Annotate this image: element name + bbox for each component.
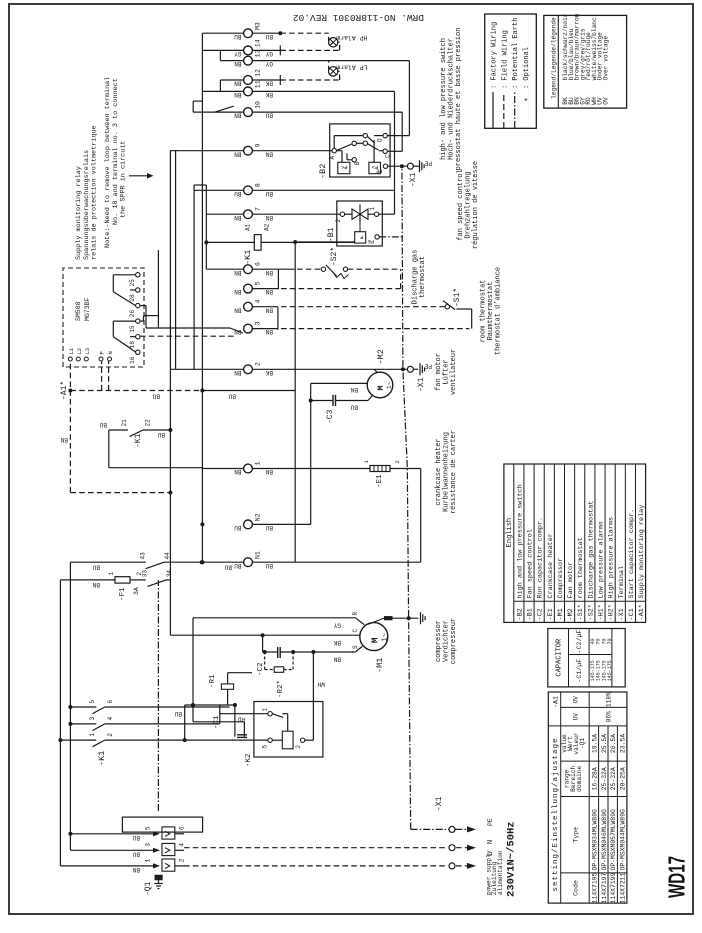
- svg-text:BN: BN: [92, 581, 100, 588]
- breaker Q1 pole 5-6: [70, 826, 185, 841]
- svg-text:thermostat: thermostat: [419, 256, 427, 298]
- start resistor R1: [209, 673, 252, 705]
- svg-text:setting/Einstellung/ajustage: setting/Einstellung/ajustage: [552, 737, 560, 891]
- contactor K1 pole 5-6: [70, 700, 114, 714]
- svg-text:BN: BN: [234, 214, 242, 221]
- K1 pole 1-2 lower wire to K2: [105, 738, 268, 742]
- svg-text:9: 9: [255, 144, 262, 148]
- svg-text:S: S: [352, 645, 359, 649]
- K1 pole 3-4 lower wire: [105, 723, 220, 725]
- svg-text:-C3: -C3: [326, 409, 335, 424]
- svg-text:Compressor: Compressor: [557, 558, 565, 599]
- svg-text:34: 34: [166, 570, 173, 578]
- B2 link P-less: [336, 151, 342, 163]
- svg-text:English: English: [506, 518, 514, 547]
- start capacitor C1 wiring: [193, 705, 244, 737]
- svg-text:BN: BN: [132, 866, 140, 873]
- optional resistor R2: [265, 652, 293, 698]
- discharge gas thermostat S2: [321, 247, 400, 279]
- svg-text:-C1/µF: -C1/µF: [576, 659, 583, 683]
- svg-text:-S1*: -S1*: [577, 604, 585, 620]
- note text about SPPR loop: [104, 77, 127, 248]
- svg-text:5: 5: [89, 700, 96, 704]
- svg-text:C: C: [352, 629, 359, 633]
- fan speed control B1 box: [327, 201, 382, 246]
- wire terminal 8 lower: [252, 189, 394, 191]
- relay K2 terminal 5: [262, 738, 283, 749]
- lamp link M3 to HP: [328, 33, 330, 42]
- svg-text:-C1: -C1: [213, 715, 221, 729]
- fan motor X1 PE terminal: [407, 363, 432, 393]
- svg-text:BU: BU: [152, 392, 160, 399]
- coil bus segment: [194, 185, 208, 269]
- supply monitoring relay caption: [75, 125, 99, 260]
- svg-text:8: 8: [255, 183, 262, 187]
- svg-text:230V1N~/50Hz: 230V1N~/50Hz: [506, 821, 518, 897]
- power supply text block: [486, 821, 518, 897]
- B2 contact b: [363, 141, 379, 150]
- svg-text:1: 1: [145, 858, 152, 862]
- svg-text:-A1*: -A1*: [638, 604, 646, 620]
- svg-text:BN: BN: [265, 468, 273, 475]
- terminal X1-12: [234, 69, 273, 87]
- svg-text:BN: BN: [350, 386, 358, 393]
- svg-text:2: 2: [255, 362, 262, 366]
- svg-text:-X1: -X1: [409, 172, 418, 187]
- run capacitor C2: [257, 647, 295, 676]
- terminal X1-6: [234, 262, 273, 276]
- svg-text:OV: OV: [573, 696, 580, 704]
- svg-text:WD17: WD17: [664, 856, 690, 898]
- B1 output wire to terminal 11: [394, 91, 396, 214]
- dashed wire P: [101, 361, 103, 391]
- contactor K1 coil: [206, 223, 354, 265]
- B2 bracket A to c: [334, 136, 363, 149]
- svg-text:A: A: [329, 156, 336, 160]
- X1 PE terminal right: [407, 159, 432, 187]
- room thermostat caption: [480, 267, 503, 355]
- legend factory wiring sample: [491, 22, 499, 128]
- relay K2 coil: [282, 731, 293, 749]
- svg-text:BN: BN: [265, 214, 273, 221]
- relay A1 contact bracket 25-26: [113, 275, 135, 306]
- wire C to terminal 10: [387, 112, 402, 151]
- svg-text:26.5A: 26.5A: [610, 734, 617, 753]
- relay A1 contact terminal 26: [129, 303, 140, 317]
- discharge thermostat return: [400, 269, 402, 288]
- svg-text:PE: PE: [375, 167, 382, 174]
- fan capacitor C3: [326, 395, 336, 424]
- wire color RD: [237, 716, 245, 723]
- svg-text:-A1*: -A1*: [60, 381, 69, 400]
- svg-text:-X1: -X1: [618, 608, 626, 620]
- alarm lamp H1 LP: [329, 63, 368, 80]
- terminal X1 label bottom: [435, 796, 444, 811]
- breaker Q1 pole 3-4: [70, 843, 185, 858]
- B1 triac symbol: [345, 204, 375, 231]
- fuse F1 wire lower: [130, 579, 146, 581]
- svg-text:BN: BN: [234, 369, 242, 376]
- svg-text:19.5A: 19.5A: [591, 734, 598, 753]
- svg-text:PE: PE: [367, 238, 374, 245]
- fan motor M2 top wire: [311, 382, 368, 384]
- fan capacitor C3 wire: [311, 394, 374, 400]
- svg-text:-B1: -B1: [527, 608, 535, 620]
- terminal X1-M3: [234, 22, 273, 40]
- aux contact K1 21-22: [109, 419, 171, 448]
- B2 contact A: [329, 149, 336, 160]
- svg-text:-C2: -C2: [257, 662, 265, 676]
- svg-text:-E1: -E1: [376, 474, 384, 488]
- svg-text:BK: BK: [265, 369, 273, 376]
- note arrow: [129, 173, 154, 179]
- svg-text:43: 43: [140, 552, 147, 560]
- wire terminal 12 upper: [220, 80, 243, 91]
- svg-text:BN: BN: [234, 269, 242, 276]
- svg-text:BU: BU: [234, 190, 242, 197]
- svg-text:BN: BN: [234, 150, 242, 157]
- svg-text:11: 11: [255, 80, 262, 88]
- svg-text:-K1: -K1: [97, 751, 107, 766]
- svg-text:M: M: [371, 638, 381, 643]
- svg-text:PE: PE: [424, 159, 432, 166]
- wire terminal 14 upper: [202, 49, 243, 51]
- svg-text:20-25A: 20-25A: [620, 767, 627, 790]
- svg-text:P<: P<: [341, 164, 348, 171]
- svg-text:-S2*: -S2*: [587, 604, 595, 620]
- supply PE line arrow and label: [411, 818, 494, 832]
- wire terminal 4 lower dashed: [252, 306, 445, 308]
- svg-text:MG73BF: MG73BF: [84, 297, 91, 321]
- svg-text:Spannungsüberwachungsrelais: Spannungsüberwachungsrelais: [83, 150, 91, 260]
- svg-text:B: B: [354, 161, 361, 165]
- svg-text:-R2*: -R2*: [277, 680, 285, 698]
- svg-text:alimentation: alimentation: [497, 850, 504, 895]
- svg-text:N: N: [107, 351, 114, 354]
- svg-text:-K1: -K1: [243, 250, 253, 265]
- svg-text:BN: BN: [234, 60, 242, 67]
- svg-text:-R1: -R1: [209, 674, 217, 688]
- svg-text:-Q1: -Q1: [579, 738, 586, 749]
- svg-text:BN: BN: [265, 269, 273, 276]
- svg-text:HP Alarm: HP Alarm: [336, 34, 367, 41]
- svg-text:WH: WH: [317, 681, 325, 688]
- svg-text:BN: BN: [234, 468, 242, 475]
- svg-text:BN: BN: [234, 328, 242, 335]
- wire K1 output branch: [185, 703, 237, 740]
- motor M1 earth symbol: [421, 612, 426, 624]
- aux contact bracket wire: [109, 430, 203, 468]
- contactor K1 pole 3-4: [70, 717, 114, 731]
- svg-text:M: M: [376, 385, 386, 390]
- wire terminal 13 lower: [252, 60, 409, 62]
- svg-text:R: R: [352, 612, 359, 616]
- B1 sensor wire: [337, 241, 355, 243]
- wire terminal 13 upper: [220, 50, 243, 60]
- svg-text:5: 5: [255, 281, 262, 285]
- svg-text:L3: L3: [84, 348, 91, 355]
- terminal X1-N1: [234, 551, 273, 569]
- svg-text:BN: BN: [265, 306, 273, 313]
- svg-text:33: 33: [142, 570, 149, 578]
- terminal X1-1: [234, 461, 273, 475]
- svg-text:Discharge gas thermostat: Discharge gas thermostat: [587, 501, 595, 599]
- relay A1 terminal L2: [76, 348, 83, 361]
- svg-text:3A: 3A: [133, 587, 140, 595]
- B2 contact D: [377, 133, 388, 142]
- svg-text:OV: OV: [602, 97, 609, 105]
- relay K2 contact terminal 1: [220, 708, 272, 716]
- svg-text:Start capacitor compr.: Start capacitor compr.: [628, 509, 636, 599]
- relay A1 terminal N: [107, 351, 114, 361]
- start capacitor C1: [213, 715, 247, 737]
- relay A1 contact terminal 25: [129, 273, 140, 287]
- wire N2 lower: [252, 523, 310, 525]
- svg-text:High pressure alarms: High pressure alarms: [608, 517, 616, 599]
- svg-text:A2: A2: [264, 223, 271, 231]
- svg-text:D: D: [377, 138, 384, 142]
- svg-text:114X7199: 114X7199: [610, 872, 617, 903]
- svg-text:: Potential Earth: : Potential Earth: [512, 18, 520, 89]
- svg-text:the SPPR in circuit: the SPPR in circuit: [120, 141, 128, 219]
- compressor caption: [435, 618, 458, 664]
- svg-text:-S1*: -S1*: [453, 288, 462, 307]
- dashed loop wire from terminal 18: [140, 335, 235, 337]
- fuse F1: [108, 572, 143, 602]
- svg-text:Fan speed control: Fan speed control: [527, 529, 535, 598]
- svg-text:BN: BN: [234, 80, 242, 87]
- svg-text:23.5A: 23.5A: [620, 734, 627, 753]
- terminal X1-13: [234, 49, 273, 67]
- relay A1 contact terminal 28: [129, 288, 140, 302]
- svg-text:4: 4: [107, 717, 114, 721]
- svg-text:-M1: -M1: [375, 658, 385, 673]
- svg-text:Run capacitor compr.: Run capacitor compr.: [537, 517, 545, 599]
- terminal X1-N2: [234, 513, 273, 531]
- svg-text:BU: BU: [132, 851, 140, 858]
- setting Einstellung ajustage table: [548, 692, 627, 903]
- svg-text:2: 2: [107, 733, 114, 737]
- svg-text:Supply monitoring relay: Supply monitoring relay: [638, 505, 646, 599]
- PE potential earth bus: [402, 166, 411, 829]
- wire terminal 7 upper: [206, 213, 243, 215]
- fan motor M2: [350, 349, 393, 410]
- B2 changeover A arm: [336, 144, 352, 151]
- svg-text:4: 4: [255, 300, 262, 304]
- svg-text:BU: BU: [265, 562, 273, 569]
- svg-text:N2: N2: [255, 513, 262, 521]
- dashed wire N: [99, 361, 108, 428]
- BN supply bus: [59, 580, 61, 866]
- control bus 2: [175, 150, 177, 369]
- legend optional marker: [523, 47, 534, 102]
- svg-text:-Q1: -Q1: [144, 881, 153, 896]
- svg-text:-H2*: -H2*: [608, 604, 616, 620]
- svg-text:CAPACITOR: CAPACITOR: [556, 638, 564, 677]
- svg-text:BU: BU: [234, 33, 242, 40]
- aux BU wire: [70, 562, 146, 570]
- svg-text:1: 1: [108, 572, 115, 576]
- svg-text:15: 15: [129, 325, 136, 333]
- svg-text:BU: BU: [132, 834, 140, 841]
- terminal X1-5: [234, 281, 273, 295]
- svg-text:2: 2: [179, 858, 186, 862]
- legend potential earth sample: [512, 18, 520, 128]
- sheet name WD17: [664, 856, 690, 898]
- svg-text:BU: BU: [265, 524, 273, 531]
- B1 P sensor box: [355, 232, 366, 243]
- svg-text:114X7197: 114X7197: [601, 872, 608, 903]
- drawing number text DRW NO-118R0301 REV.02: [293, 12, 424, 23]
- B2 sensor P-less box: [338, 162, 350, 173]
- fan speed caption: [457, 161, 480, 249]
- svg-text:-C2/µF: -C2/µF: [576, 630, 583, 654]
- solid riser to neutral bus: [202, 391, 295, 400]
- svg-text:Code: Code: [573, 880, 580, 896]
- B2 sensor P-greater box: [369, 162, 381, 173]
- svg-text:-E1: -E1: [547, 608, 555, 620]
- relay K2 contact arm: [272, 714, 287, 732]
- svg-text:10: 10: [255, 101, 262, 109]
- svg-text:M3: M3: [255, 22, 262, 30]
- wire terminal 1 to heater: [252, 468, 370, 470]
- contactor K1 main contacts label: [97, 751, 107, 766]
- svg-text:Terminal: Terminal: [618, 566, 626, 599]
- capacitor value table: [548, 629, 625, 687]
- svg-text:18: 18: [129, 341, 136, 349]
- wire terminal 7 through B1: [252, 213, 340, 215]
- svg-text:Type: Type: [573, 827, 580, 843]
- svg-text:BN: BN: [234, 112, 242, 119]
- svg-text:résistance de carter: résistance de carter: [450, 430, 458, 514]
- svg-text:BU: BU: [157, 431, 165, 438]
- svg-text:-K1: -K1: [134, 433, 143, 448]
- B1 PE terminal: [367, 235, 403, 245]
- svg-text:BU: BU: [228, 392, 236, 399]
- dashed riser to bus: [70, 492, 170, 494]
- svg-text:5: 5: [262, 745, 269, 749]
- motor M1 S wire: [265, 645, 363, 663]
- svg-text:BU: BU: [265, 33, 273, 40]
- B2 contact c: [363, 133, 374, 142]
- svg-text:OP-MSXM034MLW89G: OP-MSXM034MLW89G: [591, 809, 598, 871]
- svg-text:6: 6: [107, 700, 114, 704]
- svg-text:: Factory Wiring: : Factory Wiring: [491, 22, 499, 89]
- svg-text:12: 12: [255, 69, 262, 77]
- svg-text:3: 3: [145, 843, 152, 847]
- terminal X1-3: [234, 321, 273, 335]
- wire terminal M3 upper: [202, 32, 243, 34]
- svg-text:1: 1: [369, 207, 376, 211]
- svg-text:pressostat haute et basse pres: pressostat haute et basse pression: [455, 28, 463, 171]
- wire terminal 11 upper: [202, 90, 243, 92]
- terminal X1-9: [234, 144, 273, 158]
- wire D to terminal 13: [387, 61, 409, 136]
- svg-text:6: 6: [255, 262, 262, 266]
- circuit breaker Q1 housing: [122, 817, 202, 832]
- wire terminal 12 lower dashed: [252, 75, 339, 85]
- start relay K2 box: [245, 702, 323, 768]
- svg-text:high and low pressure switch: high and low pressure switch: [516, 484, 524, 598]
- wire terminal 2 upper: [170, 368, 243, 370]
- svg-text:BN: BN: [60, 436, 68, 443]
- pressure switch B2 box: [318, 124, 390, 179]
- wire terminal 9 to contact A: [252, 150, 332, 152]
- B2 PE wire to X1: [388, 164, 408, 168]
- svg-text:Low pressure alarms: Low pressure alarms: [598, 521, 606, 599]
- svg-text:GY: GY: [265, 50, 273, 57]
- motor M1 R wire: [193, 612, 364, 629]
- svg-text:BK: BK: [265, 80, 273, 87]
- wire terminal 6 lower: [252, 268, 321, 270]
- terminal X1-4: [234, 300, 273, 314]
- svg-text:2: 2: [394, 460, 401, 463]
- svg-text:114X7195: 114X7195: [591, 872, 598, 903]
- svg-text:BN: BN: [234, 306, 242, 313]
- PE dash-dot branch near Q1: [157, 580, 159, 811]
- wire terminal 1 upper: [202, 468, 243, 470]
- relay A1 contact terminal 15: [129, 319, 140, 333]
- terminal X1-14: [234, 39, 273, 57]
- svg-text:C: C: [385, 154, 392, 158]
- svg-text:25: 25: [129, 279, 136, 287]
- svg-text:A1: A1: [245, 223, 252, 231]
- svg-text:14: 14: [255, 39, 262, 47]
- svg-text:-B1: -B1: [327, 227, 336, 242]
- svg-text:44: 44: [164, 552, 171, 560]
- svg-text:86%: 86%: [606, 711, 613, 722]
- relay A1 contact bracket 15-16: [113, 321, 135, 352]
- svg-text:PE: PE: [424, 363, 432, 370]
- svg-text:7: 7: [255, 207, 262, 211]
- svg-text:OP-MSXM044MLW89G: OP-MSXM044MLW89G: [620, 809, 627, 871]
- svg-text:SM588: SM588: [75, 301, 82, 321]
- English designation table: [504, 464, 646, 622]
- svg-text:relais de protection voltmetri: relais de protection voltmetrique: [91, 125, 99, 260]
- svg-text:OP-MSXM046MLW89G: OP-MSXM046MLW89G: [601, 809, 608, 871]
- svg-text:L2: L2: [76, 348, 83, 355]
- svg-text:legend/Legende/légende: legend/Legende/légende: [550, 17, 557, 99]
- fuse F1 wire top: [60, 580, 115, 588]
- svg-text:-A1: -A1: [553, 696, 560, 708]
- strap terminals 3-4: [277, 307, 279, 330]
- wire terminal M3 lower dashed: [252, 31, 328, 35]
- svg-text:GY: GY: [333, 622, 341, 629]
- wire terminal 10 lower: [252, 111, 402, 113]
- svg-text:2: 2: [295, 745, 302, 749]
- pressure switch caption: [440, 28, 463, 171]
- svg-text:-K2: -K2: [245, 753, 253, 767]
- auxiliary contact 43-44: [140, 552, 244, 571]
- B2 link P-greater: [374, 136, 383, 163]
- svg-text:L1: L1: [68, 347, 75, 354]
- svg-text:1~: 1~: [382, 633, 390, 641]
- svg-text:BU: BU: [350, 404, 358, 411]
- svg-text:21: 21: [121, 419, 128, 427]
- neutral bus to coil: [295, 242, 337, 562]
- svg-text:BU: BU: [234, 524, 242, 531]
- supply L line arrow and label: [184, 852, 495, 869]
- terminal X1-10: [234, 101, 273, 119]
- wire terminal 3 lower dashed: [252, 328, 469, 330]
- dashed riser PN to bus: [70, 389, 204, 400]
- svg-text:-M1: -M1: [557, 608, 565, 620]
- svg-text:GY: GY: [265, 60, 273, 67]
- svg-text:16-28A: 16-28A: [591, 767, 598, 790]
- breaker Q1 earth terminal: [154, 875, 162, 888]
- svg-text:16: 16: [129, 356, 136, 364]
- legend color code table: [544, 13, 627, 108]
